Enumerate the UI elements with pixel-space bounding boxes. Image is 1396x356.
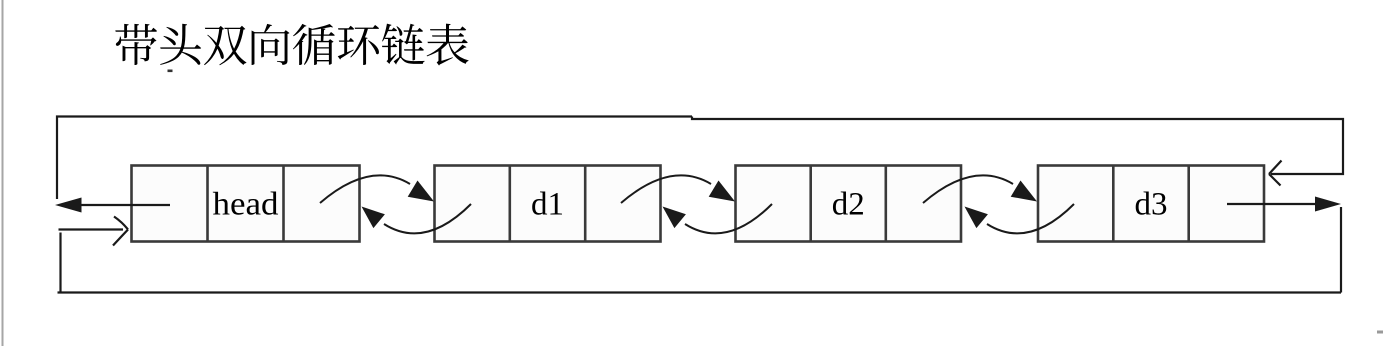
- head prev arrowhead (left): [55, 198, 82, 213]
- svg-text:d1: d1: [531, 187, 564, 223]
- next arc arrowhead into d2: [709, 181, 735, 202]
- d3 next arrowhead (right): [1315, 197, 1341, 212]
- node d1 box: [435, 166, 661, 242]
- node d3 cell dividers: [1113, 166, 1188, 242]
- title 带头双向循环链表: [115, 24, 468, 66]
- node d2 cell dividers: [811, 166, 886, 242]
- next-pointer arc d1 to d2: [621, 175, 711, 203]
- open arrowhead into d3 (prev circular link): [1269, 161, 1282, 186]
- bottom wire: [58, 291, 1342, 293]
- node head cell dividers: [208, 166, 284, 242]
- head prev line: [80, 204, 170, 206]
- node d1 cell dividers: [510, 166, 585, 242]
- prev-pointer arc d2 to d1: [685, 204, 772, 233]
- next arc arrowhead into d3: [1011, 181, 1037, 202]
- next-pointer arc d2 to d3: [923, 175, 1013, 203]
- next arc arrowhead into d1: [408, 181, 434, 202]
- svg-text:d3: d3: [1135, 187, 1168, 223]
- prev arc arrowhead into d2: [965, 207, 988, 229]
- top wire right segment: [692, 117, 1343, 175]
- open arrowhead into head: [113, 217, 128, 246]
- node d3 box: [1038, 166, 1264, 242]
- prev-pointer arc d3 to d2: [987, 204, 1074, 233]
- head entry line (next circular link): [59, 228, 124, 230]
- d3 next line: [1227, 203, 1316, 205]
- svg-text:head: head: [213, 187, 280, 223]
- left vertical wire: [57, 117, 692, 200]
- prev arc arrowhead into d1: [663, 207, 686, 229]
- prev-pointer arc d1 to head: [384, 204, 471, 233]
- right vertical wire down: [1340, 207, 1342, 293]
- node head box: [132, 166, 360, 242]
- node d2 box: [736, 166, 962, 242]
- prev arc arrowhead into head: [362, 207, 385, 229]
- svg-text:d2: d2: [832, 187, 865, 223]
- next-pointer arc head to d1: [320, 175, 410, 203]
- lower-left vertical wire: [59, 233, 61, 293]
